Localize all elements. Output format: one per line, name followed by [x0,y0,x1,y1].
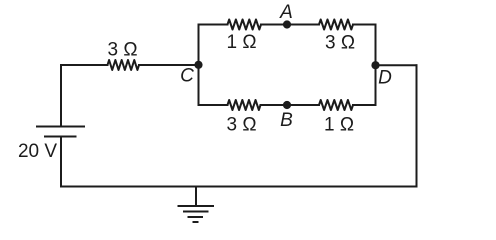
svg-text:3 Ω: 3 Ω [226,115,256,136]
svg-text:D: D [378,68,392,89]
svg-text:B: B [280,110,293,131]
svg-text:1 Ω: 1 Ω [324,115,354,136]
svg-text:20 V: 20 V [18,141,57,162]
svg-text:C: C [180,65,194,86]
svg-text:3 Ω: 3 Ω [107,40,137,61]
svg-text:3 Ω: 3 Ω [325,33,355,54]
svg-text:1 Ω: 1 Ω [226,32,256,53]
svg-text:A: A [279,2,293,23]
